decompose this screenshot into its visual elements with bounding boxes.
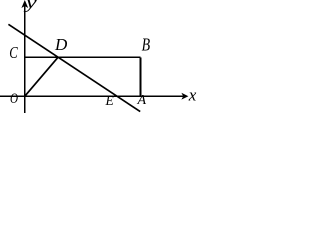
- svg-text:x: x: [188, 86, 197, 105]
- rectangle side BA (right): [140, 57, 142, 96]
- segment OD: [25, 57, 58, 96]
- svg-text:E: E: [105, 93, 115, 108]
- svg-text:C: C: [9, 43, 18, 62]
- svg-text:A: A: [137, 93, 147, 108]
- line through D and E: [8, 24, 140, 111]
- svg-text:B: B: [142, 35, 151, 55]
- y-axis: [21, 0, 28, 113]
- x-axis: [0, 93, 188, 100]
- svg-text:D: D: [54, 35, 68, 54]
- rectangle side CB (top): [25, 56, 141, 58]
- svg-text:O: O: [10, 91, 18, 107]
- svg-text:y: y: [23, 0, 37, 12]
